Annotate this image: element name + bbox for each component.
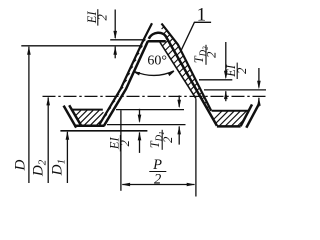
hatching: right flank tolerance band (ladder) (162, 27, 164, 29)
svg-text:60°: 60° (147, 54, 167, 69)
P/2 dimension line (122, 184, 194, 186)
right valley band top flat (min material) (212, 110, 249, 112)
peak left flank, inner (max material) (104, 41, 148, 126)
svg-text:D: D (12, 160, 28, 172)
svg-text:2: 2 (235, 68, 249, 74)
left valley left flank, outer (min material) (64, 106, 77, 128)
left valley crest flat (max material) (74, 125, 104, 128)
dimension T_D2/2 (225, 42, 227, 78)
T_D1 limit line under peak (116, 109, 184, 111)
nominal D line (21, 45, 142, 47)
label EI/2 (pitch, right) (224, 63, 249, 79)
dimension EI/2 at crest (114, 10, 116, 39)
nominal D2 pitch line (dash-dot) (43, 95, 267, 97)
svg-text:2: 2 (154, 172, 161, 188)
label T_D2/2 (192, 45, 219, 65)
D2+EI line (204, 89, 266, 91)
label D1 (50, 159, 68, 176)
nominal D1 line (60, 130, 147, 132)
svg-text:D2: D2 (31, 159, 49, 177)
label D (12, 160, 28, 172)
right valley right flank, outer (min material) (246, 105, 258, 128)
dimension EI/2 right (258, 68, 260, 87)
right valley crest flat (max material) (217, 125, 241, 128)
line at D+EI level (crest) (110, 39, 145, 41)
D1+EI line under peak (107, 124, 186, 126)
leader line for label 1 (181, 22, 211, 50)
dimension line D (28, 47, 30, 183)
label D2 (31, 159, 49, 177)
rounded root contour (arc) (149, 33, 167, 39)
left valley left flank, inner (69, 105, 81, 125)
dimension T_D1/2 (178, 95, 180, 106)
dimension line D1 (66, 132, 68, 183)
svg-text:P: P (152, 157, 162, 173)
dimension line D2 (47, 97, 49, 183)
hatching: right flank band inner half rungs (162, 40, 168, 46)
60-degree angle arc (134, 71, 174, 76)
hatching: left-valley tolerance band (76, 110, 81, 115)
P/2 left extension line (120, 110, 122, 191)
peak left flank, outer (min material) (99, 23, 152, 124)
svg-text:2: 2 (161, 137, 175, 143)
peak right flank, inner (max material) (166, 37, 217, 126)
hatching: left flank tolerance band (143, 40, 146, 43)
crest flat at D+EI (thick) (147, 40, 165, 43)
label T_D1/2 (148, 130, 175, 150)
label P/2 (149, 157, 166, 188)
svg-text:1: 1 (197, 5, 207, 26)
left valley band top flat (min material) (72, 109, 103, 111)
svg-text:2: 2 (96, 14, 110, 20)
peak right flank, nominal line inside band (160, 42, 196, 99)
T_D2 upper limit stub line (199, 79, 232, 81)
svg-text:D1: D1 (50, 159, 68, 176)
svg-text:2: 2 (118, 140, 132, 146)
right valley right flank, inner (241, 104, 252, 126)
P/2 right extension line (195, 99, 197, 197)
label EI/2 (D1, bottom) (107, 135, 132, 151)
svg-text:2: 2 (205, 52, 219, 58)
peak right flank, outer (min material) (162, 24, 212, 111)
dimension EI/2 at D1 (139, 109, 141, 122)
label EI/2 (crest) (85, 9, 110, 25)
hatching: right-valley tolerance band (214, 111, 222, 119)
